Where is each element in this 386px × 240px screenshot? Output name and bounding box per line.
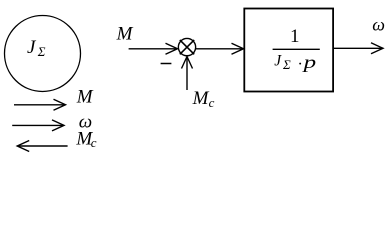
minus sign: [161, 63, 172, 65]
summing junction circle with X: [178, 38, 195, 55]
svg-text:ω: ω: [372, 15, 385, 35]
svg-text:M: M: [76, 87, 94, 108]
wire input arrow to summing junction: [129, 43, 178, 54]
svg-text:J: J: [274, 52, 282, 69]
inertia circle J_sigma: [5, 16, 81, 92]
svg-text:c: c: [91, 135, 97, 150]
svg-text:Σ: Σ: [282, 57, 291, 72]
wire summing junction to block: [196, 43, 244, 54]
block 1/(J_sigma p): [244, 9, 333, 92]
svg-text:p: p: [301, 52, 316, 72]
arrow omega (left column row 2): [12, 120, 64, 131]
arrow M (torque, left column row 1): [14, 99, 66, 110]
output wire arrow: [334, 43, 384, 54]
svg-text:M: M: [192, 88, 210, 109]
fraction bar: [273, 48, 320, 50]
wire M_c vertical arrow up into summing junction: [182, 57, 193, 91]
svg-text:c: c: [209, 95, 215, 110]
svg-text:1: 1: [290, 26, 300, 47]
arrow M_c (left column row 3, leftward): [17, 141, 67, 152]
svg-text:J: J: [27, 37, 37, 58]
svg-text:M: M: [116, 24, 134, 45]
svg-text:·: ·: [298, 56, 303, 73]
svg-text:Σ: Σ: [37, 44, 46, 59]
